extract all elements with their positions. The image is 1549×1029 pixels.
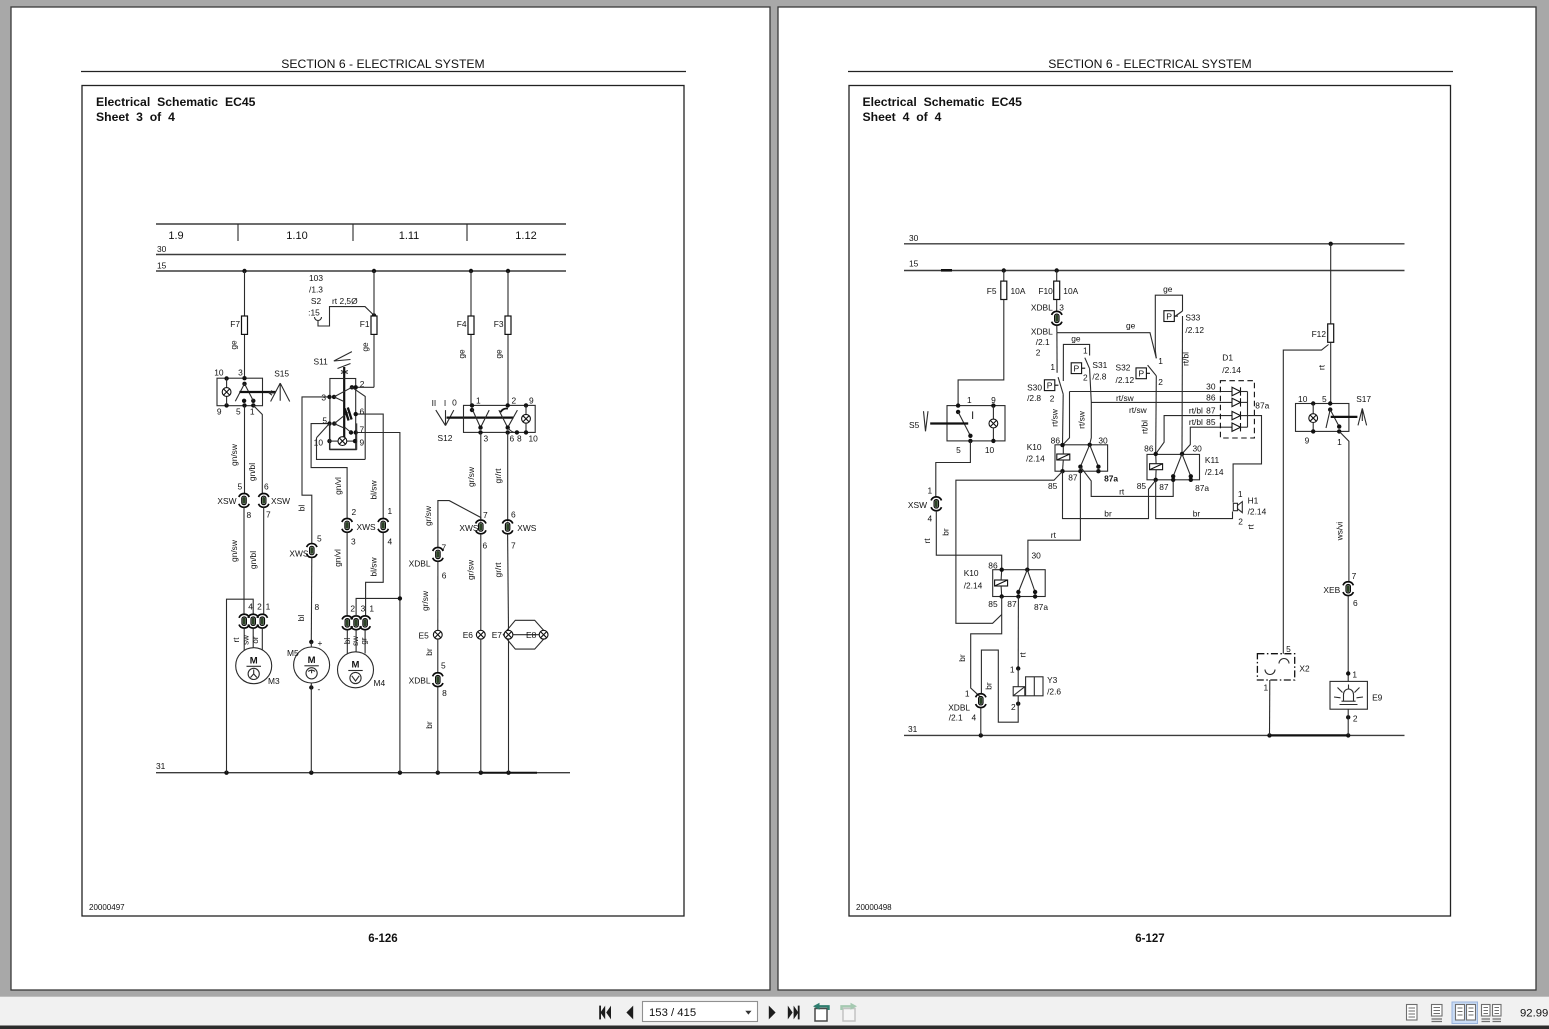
svg-text:M: M <box>308 655 316 666</box>
bus 31 right <box>904 724 1405 738</box>
svg-text:XWS: XWS <box>357 522 376 532</box>
svg-text:1.12: 1.12 <box>515 230 536 242</box>
svg-text:rt/sw: rt/sw <box>1129 405 1148 415</box>
svg-text:gn/vl: gn/vl <box>333 477 343 495</box>
left page <box>11 7 770 990</box>
svg-text:S15: S15 <box>274 369 289 379</box>
svg-text:XSW: XSW <box>271 496 290 506</box>
svg-text:7: 7 <box>360 425 365 435</box>
svg-text:br: br <box>1193 509 1201 519</box>
svg-text:Sheet 4 of 4: Sheet 4 of 4 <box>863 110 942 124</box>
svg-text:br: br <box>424 721 434 729</box>
svg-text:1: 1 <box>250 407 255 417</box>
connector XWS M5 5/8 <box>289 534 322 613</box>
svg-text:+: + <box>318 638 323 648</box>
hexagon around E7 E8 <box>503 620 547 649</box>
svg-text:F3: F3 <box>494 319 504 329</box>
svg-text:/2.12: /2.12 <box>1185 325 1204 335</box>
svg-text:gn/sw: gn/sw <box>229 443 239 466</box>
svg-text:SECTION 6 - ELECTRICAL SYSTEM: SECTION 6 - ELECTRICAL SYSTEM <box>1048 57 1251 71</box>
svg-text:2: 2 <box>1158 377 1163 387</box>
S12 contact V2 <box>499 409 518 444</box>
diode row 87 wire <box>1156 406 1232 454</box>
svg-text:87: 87 <box>1007 599 1017 609</box>
svg-text:7: 7 <box>1352 571 1357 581</box>
wire gn/sw S15 pin5 to XSW <box>229 406 245 494</box>
svg-text:rt/bl: rt/bl <box>1189 406 1203 416</box>
svg-text:S5: S5 <box>909 420 920 430</box>
svg-text:87a: 87a <box>1255 401 1269 411</box>
svg-text:10: 10 <box>314 438 324 448</box>
svg-text:1: 1 <box>369 604 374 614</box>
svg-text:XDBL: XDBL <box>948 702 970 712</box>
wire F5 to S5 pin1 <box>958 300 1004 406</box>
switch block S10 outer box <box>330 379 356 450</box>
svg-text:10: 10 <box>214 368 224 378</box>
S12 pin 8 <box>508 428 522 443</box>
svg-text:10: 10 <box>985 445 995 455</box>
title left <box>96 95 256 124</box>
svg-text:gn/bl: gn/bl <box>248 551 258 569</box>
M4 pin3 ground branch to vertical <box>356 598 400 616</box>
svg-text:7: 7 <box>511 541 516 551</box>
wire rt/sw S30 to K10 86 <box>1050 394 1064 445</box>
svg-text:XDBL: XDBL <box>1031 303 1053 313</box>
svg-text:9: 9 <box>217 407 222 417</box>
svg-text:30: 30 <box>157 244 167 254</box>
relay K11 <box>1137 444 1224 494</box>
diode D1d <box>1232 423 1248 431</box>
svg-text:XWS: XWS <box>517 523 536 533</box>
wires M3 connector to motor <box>244 628 262 650</box>
bus 15 <box>156 261 566 274</box>
svg-text:XEB: XEB <box>1323 585 1340 595</box>
connector X2 dash-dot box <box>1257 644 1310 735</box>
next page button <box>769 1006 776 1020</box>
svg-text:rt: rt <box>1119 486 1125 496</box>
wire gn/bl XSW to M3 pin1 <box>248 508 264 614</box>
svg-text:br: br <box>1104 509 1112 519</box>
relay K10 upper <box>1026 436 1118 492</box>
svg-text:2: 2 <box>1083 373 1088 383</box>
connector XDBL 7/6 <box>409 543 447 581</box>
svg-text:rt: rt <box>1317 364 1327 370</box>
S-block pin 2 <box>350 379 365 389</box>
svg-text:E8: E8 <box>526 630 537 640</box>
wire rt/sw D1 row30 to K10 86 <box>1063 392 1070 446</box>
schematic frame box right <box>849 86 1451 917</box>
beacon E9 <box>1330 681 1383 735</box>
svg-text:87: 87 <box>1159 482 1169 492</box>
svg-text:85: 85 <box>1048 481 1058 491</box>
diode block D1 dashed box <box>1220 353 1254 439</box>
svg-text:rt/sw: rt/sw <box>1116 393 1135 403</box>
svg-text:F4: F4 <box>457 319 467 329</box>
svg-text:1: 1 <box>1263 683 1268 693</box>
svg-text:1: 1 <box>1050 362 1055 372</box>
diode D1b <box>1232 398 1248 406</box>
svg-text:ge: ge <box>457 349 467 359</box>
previous view button <box>813 1003 829 1021</box>
svg-text:6: 6 <box>1353 598 1358 608</box>
svg-text:10: 10 <box>529 434 539 444</box>
svg-text:S2: S2 <box>311 296 322 306</box>
svg-text:/2.14: /2.14 <box>1205 467 1224 477</box>
svg-text:9: 9 <box>360 438 365 448</box>
svg-text:85: 85 <box>988 599 998 609</box>
connector XDBL 1/4 bottom <box>948 689 986 736</box>
wire F12 branch to X2 <box>1283 345 1328 654</box>
svg-text:3: 3 <box>484 434 489 444</box>
svg-text:8: 8 <box>517 434 522 444</box>
svg-text:86: 86 <box>1206 392 1216 402</box>
wire br K10-85 to XSW net <box>940 471 1062 623</box>
svg-text:9: 9 <box>1305 435 1310 445</box>
wire gr/sw XDBL to E5 <box>420 562 438 631</box>
svg-text:10A: 10A <box>1063 286 1078 296</box>
connector XEB 7/6 <box>1323 571 1358 608</box>
S12 pin 2 <box>506 396 517 408</box>
svg-text:0: 0 <box>452 398 457 408</box>
S-block pin 6 <box>354 407 365 417</box>
svg-text:E5: E5 <box>419 630 430 640</box>
svg-text:/2.8: /2.8 <box>1027 393 1041 403</box>
connector S2 pigtail 103/1.3 <box>308 273 376 326</box>
svg-text:/2.14: /2.14 <box>1222 365 1241 375</box>
svg-text:1.11: 1.11 <box>399 230 420 242</box>
svg-text:87: 87 <box>1068 473 1078 483</box>
svg-text:M: M <box>250 656 258 667</box>
svg-text:2: 2 <box>1353 714 1358 724</box>
S12 contact V1 <box>472 409 489 444</box>
pressure switch S32 <box>1136 365 1156 379</box>
svg-text:87a: 87a <box>1104 474 1118 484</box>
svg-text:1: 1 <box>1352 670 1357 680</box>
svg-text:E6: E6 <box>463 630 474 640</box>
svg-text:Electrical Schematic EC45: Electrical Schematic EC45 <box>96 95 256 109</box>
wire br XDBL to bus31 <box>424 687 438 773</box>
svg-text:F5: F5 <box>987 286 997 296</box>
wire gr/rt S12 pin6 to XWS <box>493 432 508 521</box>
svg-text:gr/sw: gr/sw <box>466 559 476 580</box>
wire gn/vl XWS to M4 <box>333 533 348 616</box>
svg-text:8: 8 <box>315 602 320 612</box>
wire rt K10-87 to K10lower-30 <box>1028 471 1081 570</box>
svg-text:ge: ge <box>494 349 504 359</box>
svg-text:XDBL: XDBL <box>1031 326 1053 336</box>
svg-text:rt/bl: rt/bl <box>1181 352 1191 366</box>
svg-text:S32: S32 <box>1116 363 1131 373</box>
svg-text:/1.3: /1.3 <box>309 285 323 295</box>
svg-text:86: 86 <box>1051 436 1061 446</box>
diode row 85 wire <box>1182 417 1232 454</box>
svg-text:6-126: 6-126 <box>368 933 397 945</box>
page header left <box>81 57 686 72</box>
wire gn/vl S-block pin5 to XWS 2/3 <box>311 424 347 518</box>
svg-text:1: 1 <box>1158 356 1163 366</box>
bus 31 <box>156 761 570 775</box>
svg-text:ge: ge <box>229 340 239 350</box>
svg-text:gr/sw: gr/sw <box>423 505 433 526</box>
svg-text:2: 2 <box>1036 348 1041 358</box>
relay K10 lower <box>964 551 1049 612</box>
svg-text:gn/vl: gn/vl <box>333 549 343 567</box>
svg-text:SECTION 6 - ELECTRICAL SYSTEM: SECTION 6 - ELECTRICAL SYSTEM <box>281 57 484 71</box>
svg-text:gr: gr <box>359 637 368 644</box>
svg-text:rt: rt <box>1017 652 1027 658</box>
svg-text:bl/sw: bl/sw <box>369 480 379 500</box>
wire gn/sw XSW to M3 pin4 <box>229 508 244 614</box>
svg-text:XSW: XSW <box>908 500 927 510</box>
wire br K11-85 to H1-2 <box>1156 480 1233 519</box>
next view button disabled <box>842 1003 858 1021</box>
svg-text:1.10: 1.10 <box>286 230 307 242</box>
svg-text:6: 6 <box>510 434 515 444</box>
lamp E8 <box>513 630 548 640</box>
fuse F5 10A <box>987 271 1026 300</box>
wire rt/bl S32 to K11 86 <box>1139 376 1156 454</box>
svg-text:S12: S12 <box>438 433 453 443</box>
svg-text:S33: S33 <box>1185 313 1200 323</box>
svg-text:5: 5 <box>236 407 241 417</box>
svg-text:5: 5 <box>1286 644 1291 654</box>
svg-text:15: 15 <box>909 259 919 269</box>
svg-text:7: 7 <box>483 510 488 520</box>
bus 30 <box>156 244 566 255</box>
switch block S12 box <box>464 405 536 432</box>
S-block pin 3 <box>321 393 336 403</box>
svg-text:/2.1: /2.1 <box>1036 337 1050 347</box>
svg-text:87a: 87a <box>1034 602 1048 612</box>
S-block switch arms <box>334 387 365 459</box>
svg-text:rt/sw: rt/sw <box>1077 410 1087 429</box>
switch S11 symbol <box>314 352 352 376</box>
wire XDBL-2 down to S30 <box>1050 333 1057 373</box>
svg-text:E7: E7 <box>492 630 503 640</box>
diode collector wire 87a <box>1233 392 1270 503</box>
svg-text:1: 1 <box>927 486 932 496</box>
wire ws/vi S17 to XEB <box>1335 431 1349 582</box>
svg-text:I: I <box>444 398 446 408</box>
bus 30 right <box>904 233 1405 246</box>
svg-text:Sheet 3 of 4: Sheet 3 of 4 <box>96 110 175 124</box>
svg-text:30: 30 <box>909 233 919 243</box>
page number combo box <box>643 1002 758 1022</box>
svg-text:85: 85 <box>1137 481 1147 491</box>
svg-text:4: 4 <box>388 537 393 547</box>
svg-text:rt/sw: rt/sw <box>1050 408 1060 427</box>
svg-text::15: :15 <box>308 308 320 318</box>
diode D1c <box>1232 411 1248 419</box>
diode row 86 wire <box>1091 392 1232 414</box>
wire br K10lower-85 to XDBL <box>957 597 1002 698</box>
first page button <box>599 1006 611 1020</box>
grid reference header <box>156 224 566 242</box>
svg-text:/2.14: /2.14 <box>1248 507 1267 517</box>
svg-text:2: 2 <box>360 379 365 389</box>
connector trio M4 pins 2 3 1 <box>342 604 374 646</box>
S12 pin 1 <box>470 396 481 413</box>
fuse F3 with wire ge <box>494 271 512 405</box>
svg-text:30: 30 <box>1032 551 1042 561</box>
svg-text:2: 2 <box>1050 394 1055 404</box>
svg-text:2: 2 <box>512 396 517 406</box>
S12 pin 9 lamp <box>522 396 539 444</box>
fuse F10 10A <box>1038 271 1078 300</box>
svg-text:2: 2 <box>350 604 355 614</box>
switch S32 labels <box>1116 356 1164 387</box>
connector XWS E7 6/7 <box>502 510 536 551</box>
lamp E7 with wire <box>492 630 513 773</box>
svg-text:E9: E9 <box>1372 693 1383 703</box>
svg-text:ws/vi: ws/vi <box>1335 522 1345 542</box>
wire br K10-85 to K11-85 <box>1063 471 1156 518</box>
svg-text:1.9: 1.9 <box>168 230 183 242</box>
svg-text:/2.14: /2.14 <box>1026 453 1045 463</box>
svg-text:1: 1 <box>1238 489 1243 499</box>
connector XDBL 5/8 <box>409 661 447 699</box>
svg-text:ge: ge <box>360 342 370 352</box>
svg-text:rt: rt <box>1246 524 1256 530</box>
S-block pin 10 and lamp row <box>314 437 365 448</box>
svg-text:30: 30 <box>1193 444 1203 454</box>
svg-text:gr/sw: gr/sw <box>466 466 476 487</box>
svg-text:II: II <box>432 398 437 408</box>
wire bl XWS to M5 plus <box>296 558 323 648</box>
wire gr/rt XWS to E7 <box>493 534 509 630</box>
connector XWS M4 1/4 <box>378 506 393 547</box>
svg-text:S30: S30 <box>1027 383 1042 393</box>
svg-text:86: 86 <box>988 560 998 570</box>
svg-text:D1: D1 <box>1222 353 1233 363</box>
svg-text:5: 5 <box>956 445 961 455</box>
diode row 30 wire <box>1070 382 1233 404</box>
svg-text:Y3: Y3 <box>1047 675 1058 685</box>
wire br E5 to XDBL <box>424 639 438 673</box>
wire XEB to E9 <box>1346 596 1357 682</box>
svg-text:92.99: 92.99 <box>1520 1008 1548 1020</box>
svg-text:ge: ge <box>1163 284 1173 294</box>
svg-text:M: M <box>352 660 360 671</box>
S-block pin 5 <box>322 416 336 426</box>
svg-text:30: 30 <box>1098 436 1108 446</box>
motor M3 <box>236 648 280 686</box>
svg-text:rt/bl: rt/bl <box>1139 420 1149 434</box>
svg-text:XDBL: XDBL <box>409 559 431 569</box>
svg-text:br: br <box>940 528 950 536</box>
wires M4 connector to motor <box>347 630 365 654</box>
previous page button <box>626 1006 633 1020</box>
layout facing icon selected <box>1452 1002 1478 1024</box>
svg-text:1: 1 <box>266 602 271 612</box>
fuse F4 with wire ge <box>457 271 475 405</box>
svg-text:7: 7 <box>266 510 271 520</box>
svg-text:2: 2 <box>1238 517 1243 527</box>
horn H1 <box>1233 489 1266 530</box>
svg-text:bl: bl <box>297 505 307 512</box>
svg-text:6: 6 <box>511 510 516 520</box>
layout continuous icon <box>1432 1005 1443 1022</box>
toolbar background <box>0 997 1549 1027</box>
svg-text:S17: S17 <box>1356 394 1371 404</box>
svg-text:/2.8: /2.8 <box>1092 372 1106 382</box>
S12 mechanical link <box>447 417 514 419</box>
svg-text:/2.14: /2.14 <box>964 581 983 591</box>
pressure switch S30 <box>1027 377 1063 403</box>
svg-text:S11: S11 <box>314 357 329 367</box>
svg-text:6-127: 6-127 <box>1135 933 1164 945</box>
svg-text:4: 4 <box>927 514 932 524</box>
svg-text:2: 2 <box>257 602 262 612</box>
connector trio M3 pins 4 2 1 <box>232 602 271 645</box>
svg-text:gn/sw: gn/sw <box>229 539 239 562</box>
svg-text:3: 3 <box>238 368 243 378</box>
wire ge branch to S31 <box>1063 334 1089 382</box>
svg-text:6: 6 <box>264 482 269 492</box>
motor M5 <box>287 642 330 773</box>
svg-text:1: 1 <box>476 396 481 406</box>
wire rt/sw S31 to D1 row86 and K10 30 <box>1077 369 1092 445</box>
switch S5 block <box>947 395 1005 455</box>
svg-text:5: 5 <box>317 534 322 544</box>
svg-text:15: 15 <box>157 261 167 271</box>
svg-text:1: 1 <box>388 506 393 516</box>
svg-text:87: 87 <box>1206 406 1216 416</box>
svg-text:S31: S31 <box>1092 360 1107 370</box>
svg-text:sw: sw <box>242 635 251 645</box>
svg-text:10A: 10A <box>1011 286 1026 296</box>
svg-text:M3: M3 <box>268 676 280 686</box>
svg-text:or: or <box>251 636 260 643</box>
last page button <box>788 1006 800 1020</box>
wire pin7 vertical to bus31 <box>356 433 402 773</box>
svg-text:XDBL: XDBL <box>409 676 431 686</box>
svg-text:XSW: XSW <box>217 496 236 506</box>
wire ge XDBL to S32 <box>1057 321 1157 359</box>
wire ge S33 bracket <box>1155 284 1182 358</box>
svg-text:31: 31 <box>908 724 918 734</box>
wire rt XSW to K10lower-86 <box>922 511 1002 570</box>
switch S12 lever <box>432 398 458 444</box>
wire gr/sw diagonal to XDBL column <box>423 501 481 548</box>
svg-text:/2.1: /2.1 <box>949 713 963 723</box>
svg-text:Electrical Schematic EC45: Electrical Schematic EC45 <box>863 95 1023 109</box>
svg-text:6: 6 <box>360 407 365 417</box>
switch S17 block <box>1296 394 1372 447</box>
svg-text:br: br <box>984 682 994 690</box>
wire rt K10-87 to K11-87 <box>1080 467 1173 497</box>
title right <box>863 95 1023 124</box>
svg-text:rt: rt <box>922 538 932 544</box>
svg-text:2: 2 <box>1011 702 1016 712</box>
svg-text:30: 30 <box>1206 382 1216 392</box>
pressure switch S31 <box>1071 358 1107 383</box>
svg-text:rt: rt <box>232 637 241 643</box>
svg-text:gr/rt: gr/rt <box>493 562 503 578</box>
svg-text:br: br <box>957 654 967 662</box>
svg-text:X2: X2 <box>1299 664 1310 674</box>
connector XWS M4 2/3 <box>342 507 376 547</box>
page header right <box>848 57 1453 72</box>
right page <box>778 7 1536 990</box>
svg-text:3: 3 <box>321 393 326 403</box>
wire rt/bl S33 to K11 30 <box>1181 316 1191 454</box>
S-block pin 7 <box>349 425 365 435</box>
svg-text:br: br <box>424 648 434 656</box>
fuse F7 with wire <box>229 271 248 378</box>
svg-text:10: 10 <box>1298 394 1308 404</box>
svg-text:6: 6 <box>442 571 447 581</box>
